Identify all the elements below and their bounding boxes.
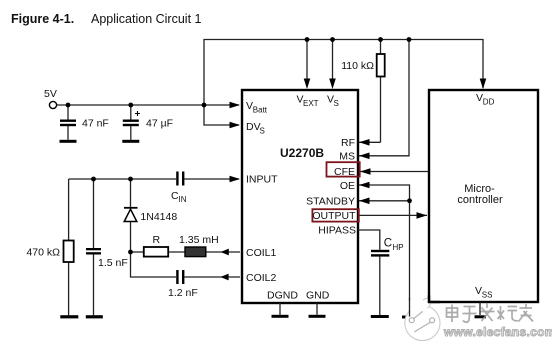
svg-text:Figure 4-1.: Figure 4-1. bbox=[11, 12, 74, 26]
svg-text:1.5 nF: 1.5 nF bbox=[98, 257, 128, 269]
svg-text:5V: 5V bbox=[44, 88, 57, 100]
svg-text:1.2 nF: 1.2 nF bbox=[168, 287, 198, 299]
svg-text:COIL1: COIL1 bbox=[246, 247, 277, 259]
svg-text:SS: SS bbox=[482, 291, 493, 300]
svg-text:www.elecfans.com: www.elecfans.com bbox=[443, 325, 552, 339]
svg-text:47 nF: 47 nF bbox=[82, 118, 109, 130]
svg-text:RF: RF bbox=[341, 137, 355, 149]
svg-text:MS: MS bbox=[339, 151, 355, 163]
svg-text:470 kΩ: 470 kΩ bbox=[26, 247, 60, 259]
svg-text:S: S bbox=[260, 127, 265, 136]
svg-text:OUTPUT: OUTPUT bbox=[312, 210, 356, 222]
svg-text:47 µF: 47 µF bbox=[146, 118, 173, 130]
svg-text:DV: DV bbox=[246, 121, 261, 133]
svg-text:S: S bbox=[334, 99, 339, 108]
svg-text:R: R bbox=[153, 234, 161, 246]
svg-text:Batt: Batt bbox=[253, 106, 268, 115]
svg-text:C: C bbox=[384, 238, 392, 250]
svg-text:1.35 mH: 1.35 mH bbox=[179, 234, 219, 246]
svg-text:1N4148: 1N4148 bbox=[140, 211, 177, 223]
svg-text:INPUT: INPUT bbox=[246, 174, 278, 186]
svg-text:EXT: EXT bbox=[303, 99, 319, 108]
svg-text:DGND: DGND bbox=[267, 290, 298, 302]
svg-text:Application Circuit 1: Application Circuit 1 bbox=[91, 12, 202, 26]
svg-text:DD: DD bbox=[483, 98, 495, 107]
svg-text:controller: controller bbox=[457, 194, 503, 206]
svg-text:HIPASS: HIPASS bbox=[318, 225, 356, 237]
svg-text:GND: GND bbox=[306, 290, 330, 302]
svg-text:Micro-: Micro- bbox=[464, 183, 495, 195]
svg-text:HP: HP bbox=[393, 243, 404, 252]
svg-text:U2270B: U2270B bbox=[280, 146, 324, 160]
svg-text:IN: IN bbox=[179, 195, 187, 204]
svg-text:STANDBY: STANDBY bbox=[306, 196, 355, 208]
svg-text:OE: OE bbox=[340, 180, 355, 192]
svg-text:COIL2: COIL2 bbox=[246, 272, 277, 284]
svg-text:110 kΩ: 110 kΩ bbox=[341, 60, 374, 72]
